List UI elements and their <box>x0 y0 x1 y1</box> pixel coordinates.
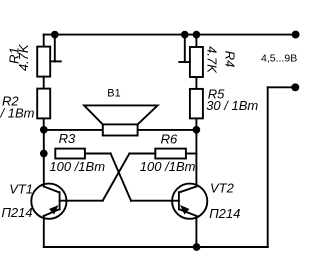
svg-text:П214: П214 <box>209 206 240 221</box>
svg-text:4.7K: 4.7K <box>16 43 31 71</box>
svg-text:R3: R3 <box>59 131 76 146</box>
svg-text:B1: B1 <box>107 87 120 99</box>
wire right drop to R4 <box>195 35 197 47</box>
svg-text:30 / 1Вт: 30 / 1Вт <box>206 98 258 113</box>
node left R3 junction <box>40 150 48 158</box>
wire R3 right <box>85 153 111 155</box>
wire VT2 emitter down <box>195 216 197 247</box>
wire battery minus to terminal <box>268 86 296 88</box>
node top right tap junction <box>181 31 189 39</box>
resistor R6 <box>155 149 186 159</box>
svg-text:VT1: VT1 <box>9 181 33 196</box>
wire VT1 emitter down <box>43 216 45 247</box>
node top right rail junction <box>193 31 201 39</box>
wire R5 down to node <box>195 118 197 129</box>
wire R6 left <box>129 153 155 155</box>
wire cross diagonal R6 to VT1 base <box>103 154 130 201</box>
wire R4 to R5 <box>195 77 197 89</box>
resistor R5 <box>190 89 203 119</box>
wire right rail down <box>195 130 197 187</box>
node battery plus terminal <box>292 31 300 39</box>
node battery minus terminal <box>291 83 299 91</box>
wire battery minus riser <box>267 87 269 247</box>
svg-text:П214: П214 <box>2 205 33 220</box>
loudspeaker B1 <box>84 105 158 135</box>
wire VT1 base lead <box>60 200 103 202</box>
resistor R2 <box>37 89 50 119</box>
wire R2 down to node <box>43 118 45 130</box>
wire VT2 base lead <box>131 200 179 202</box>
svg-text:/ 1Вт: / 1Вт <box>0 106 35 121</box>
transistor VT1 <box>31 184 66 219</box>
wire R1 tap tick <box>50 35 61 62</box>
svg-text:R6: R6 <box>161 131 178 146</box>
wire R4 tap tick <box>179 35 190 62</box>
node left speaker junction <box>40 126 48 134</box>
node top left tap junction <box>51 31 59 39</box>
transistor VT2 <box>172 184 207 219</box>
wire top supply rail <box>44 34 296 36</box>
wire R6 right to rail <box>186 153 197 155</box>
resistor R4 <box>190 47 203 77</box>
svg-text:100 /1Вт: 100 /1Вт <box>49 159 105 174</box>
wire left drop to R1 <box>43 35 45 47</box>
wire left rail down <box>43 130 45 187</box>
svg-text:4.7K: 4.7K <box>204 46 219 74</box>
wire R1 to R2 <box>43 77 45 89</box>
node right speaker junction <box>193 126 201 134</box>
svg-text:R4: R4 <box>223 51 238 68</box>
svg-text:4,5...9В: 4,5...9В <box>261 52 297 64</box>
resistor R1 <box>37 47 50 77</box>
svg-text:VT2: VT2 <box>210 180 235 195</box>
resistor R3 <box>55 149 85 159</box>
wire cross diagonal R3 to VT2 base <box>111 154 131 201</box>
wire bottom rail <box>44 246 268 248</box>
node bottom rail junction <box>193 243 201 251</box>
svg-text:100 /1Вт: 100 /1Вт <box>140 159 196 174</box>
wire speaker row <box>44 129 197 131</box>
